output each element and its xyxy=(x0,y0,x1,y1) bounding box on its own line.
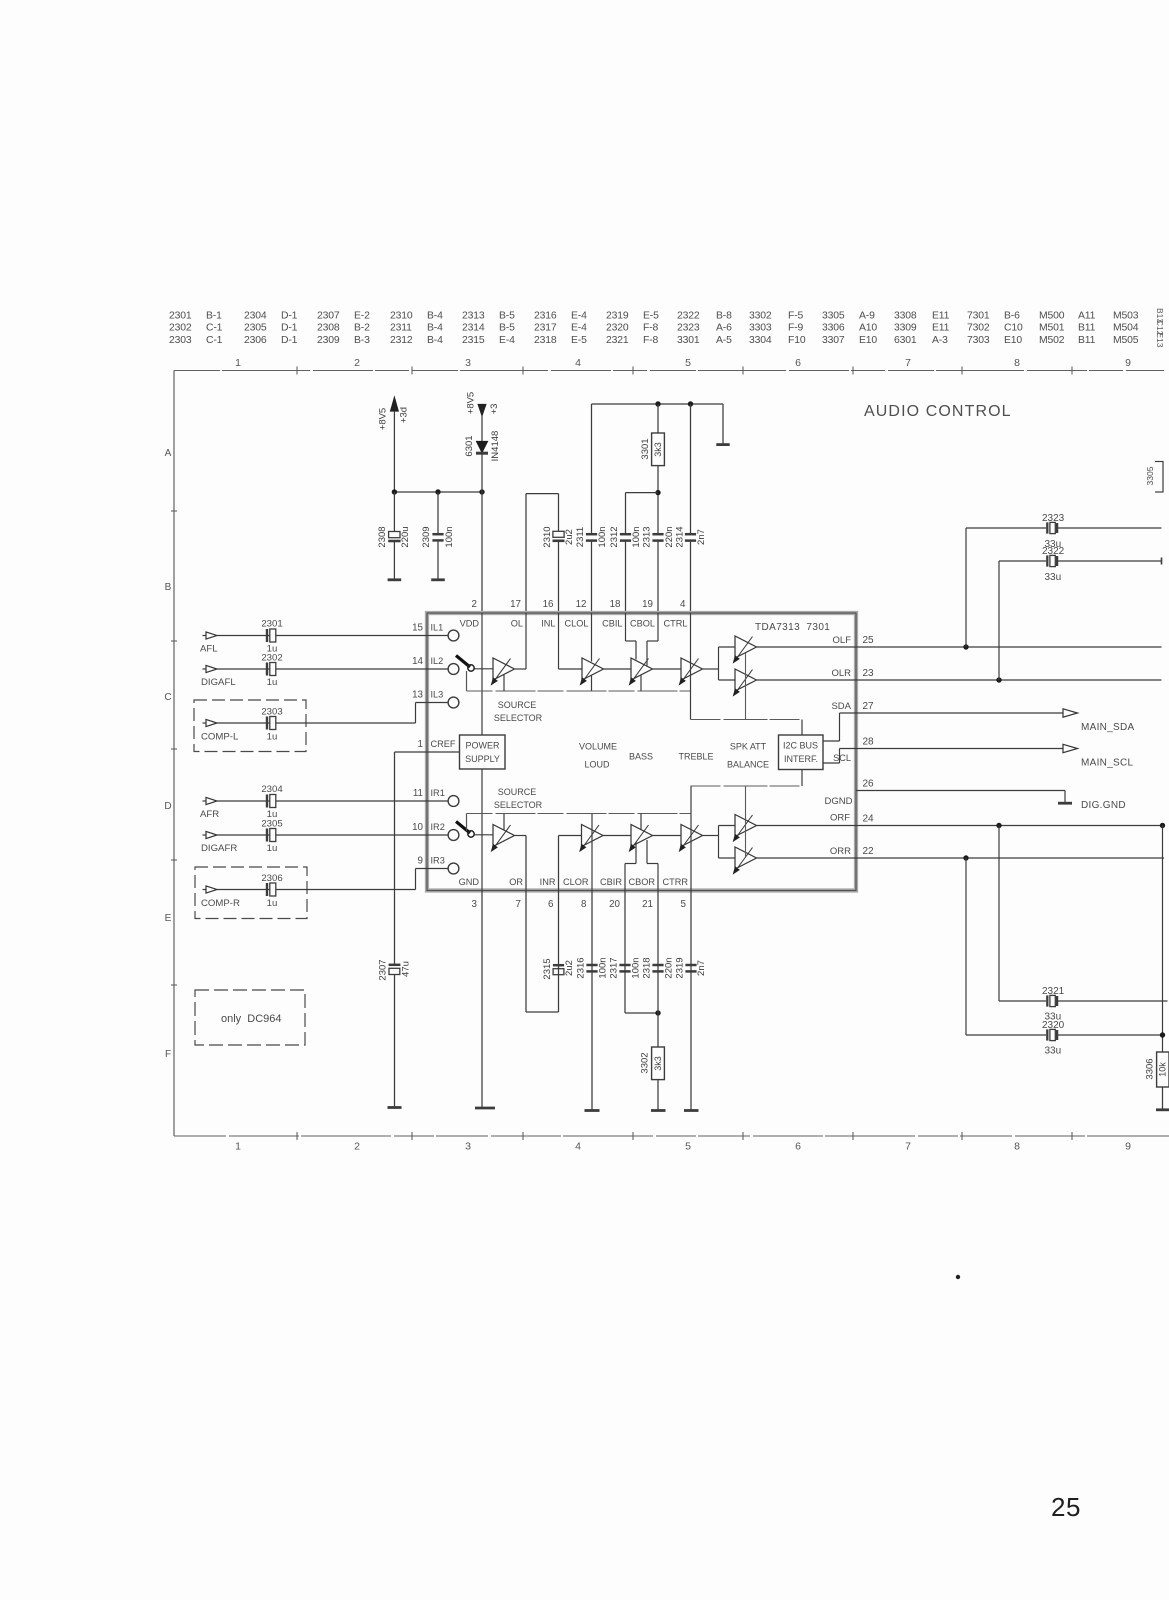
svg-text:INR: INR xyxy=(540,877,556,887)
svg-text:1: 1 xyxy=(235,357,241,369)
svg-text:D: D xyxy=(164,801,171,812)
svg-text:100n: 100n xyxy=(631,957,642,978)
svg-text:10: 10 xyxy=(412,822,423,833)
svg-text:3303: 3303 xyxy=(749,323,772,334)
svg-text:2314: 2314 xyxy=(675,526,686,547)
svg-text:SOURCE: SOURCE xyxy=(498,700,537,710)
svg-text:2304: 2304 xyxy=(244,311,267,322)
svg-text:2315: 2315 xyxy=(542,958,553,979)
svg-text:10k: 10k xyxy=(1158,1062,1168,1077)
svg-text:+3: +3 xyxy=(489,404,500,415)
svg-text:OL: OL xyxy=(511,619,523,629)
svg-text:7: 7 xyxy=(516,899,521,910)
svg-text:100n: 100n xyxy=(598,957,609,978)
svg-text:F-5: F-5 xyxy=(788,311,804,322)
svg-text:OLR: OLR xyxy=(831,668,851,679)
svg-text:2307: 2307 xyxy=(378,959,389,980)
svg-text:12: 12 xyxy=(576,599,587,610)
svg-text:1u: 1u xyxy=(267,732,278,743)
svg-text:SDA: SDA xyxy=(831,701,851,712)
svg-text:2318: 2318 xyxy=(642,957,653,978)
svg-text:COMP-R: COMP-R xyxy=(201,898,240,909)
svg-text:+8V5: +8V5 xyxy=(466,392,477,414)
svg-text:E-4: E-4 xyxy=(571,311,587,322)
svg-text:IR1: IR1 xyxy=(431,788,445,798)
svg-text:B-2: B-2 xyxy=(354,323,370,334)
svg-text:E11: E11 xyxy=(932,323,950,334)
svg-text:5: 5 xyxy=(685,357,691,369)
svg-text:2311: 2311 xyxy=(575,527,586,547)
svg-text:2n7: 2n7 xyxy=(696,529,707,545)
svg-text:1: 1 xyxy=(418,739,423,750)
svg-text:C: C xyxy=(164,692,171,703)
svg-text:IN4148: IN4148 xyxy=(490,431,501,462)
svg-text:3k3: 3k3 xyxy=(653,1056,663,1071)
svg-text:B-6: B-6 xyxy=(1004,311,1020,322)
svg-text:24: 24 xyxy=(863,814,875,825)
svg-text:2319: 2319 xyxy=(606,311,629,322)
svg-text:LOUD: LOUD xyxy=(584,760,610,770)
svg-text:2309: 2309 xyxy=(421,526,432,547)
svg-text:21: 21 xyxy=(642,899,653,910)
svg-text:TREBLE: TREBLE xyxy=(678,752,713,762)
svg-text:only DC964: only DC964 xyxy=(221,1013,282,1025)
svg-text:B11: B11 xyxy=(1078,323,1096,334)
svg-text:B: B xyxy=(165,582,172,593)
svg-text:8: 8 xyxy=(1014,357,1020,369)
svg-text:M500: M500 xyxy=(1039,311,1065,322)
svg-text:4: 4 xyxy=(680,599,686,610)
svg-text:2319: 2319 xyxy=(675,957,686,978)
svg-text:2308: 2308 xyxy=(317,323,340,334)
svg-text:IL3: IL3 xyxy=(431,690,444,700)
svg-text:VDD: VDD xyxy=(460,619,480,629)
svg-text:CBOL: CBOL xyxy=(630,619,655,629)
svg-text:2306: 2306 xyxy=(244,335,267,346)
svg-text:7302: 7302 xyxy=(967,323,990,334)
svg-text:B-4: B-4 xyxy=(427,335,443,346)
svg-text:E10: E10 xyxy=(859,335,877,346)
svg-text:1u: 1u xyxy=(267,898,278,909)
svg-text:F-9: F-9 xyxy=(788,323,804,334)
svg-text:3302: 3302 xyxy=(749,311,772,322)
svg-text:4: 4 xyxy=(575,1141,581,1153)
svg-text:3: 3 xyxy=(465,357,471,369)
svg-text:1u: 1u xyxy=(267,677,278,688)
svg-text:2309: 2309 xyxy=(317,335,340,346)
svg-text:2306: 2306 xyxy=(261,873,282,884)
svg-text:E: E xyxy=(165,913,172,924)
svg-text:2316: 2316 xyxy=(576,957,587,978)
svg-text:CREF: CREF xyxy=(431,739,456,749)
svg-text:ORR: ORR xyxy=(830,846,851,857)
svg-text:2304: 2304 xyxy=(261,784,283,795)
svg-text:9: 9 xyxy=(1125,357,1131,369)
svg-text:CTRL: CTRL xyxy=(664,619,688,629)
svg-text:INTERF.: INTERF. xyxy=(784,754,818,764)
svg-text:2305: 2305 xyxy=(261,819,282,830)
svg-text:MAIN_SDA: MAIN_SDA xyxy=(1081,722,1135,733)
svg-text:F-8: F-8 xyxy=(643,323,659,334)
svg-text:E-4: E-4 xyxy=(499,335,515,346)
svg-text:TDA7313 7301: TDA7313 7301 xyxy=(755,622,830,633)
svg-text:7: 7 xyxy=(905,1141,911,1153)
svg-text:C10: C10 xyxy=(1004,323,1023,334)
svg-text:2323: 2323 xyxy=(677,323,700,334)
svg-text:SELECTOR: SELECTOR xyxy=(494,800,543,810)
svg-text:2317: 2317 xyxy=(534,323,557,334)
svg-text:IR3: IR3 xyxy=(431,856,445,866)
svg-text:B11: B11 xyxy=(1078,335,1096,346)
svg-text:SCL: SCL xyxy=(833,753,851,763)
svg-text:OLF: OLF xyxy=(833,635,852,646)
svg-text:M502: M502 xyxy=(1039,335,1065,346)
svg-text:A-3: A-3 xyxy=(932,335,948,346)
svg-text:F-8: F-8 xyxy=(643,335,659,346)
svg-text:2u2: 2u2 xyxy=(564,960,575,976)
svg-text:26: 26 xyxy=(863,779,875,790)
svg-text:M501: M501 xyxy=(1039,323,1065,334)
svg-text:SELECTOR: SELECTOR xyxy=(494,713,543,723)
svg-text:16: 16 xyxy=(543,599,554,610)
svg-text:7301: 7301 xyxy=(967,311,990,322)
svg-text:M504: M504 xyxy=(1113,323,1139,334)
svg-text:8: 8 xyxy=(581,899,587,910)
svg-text:22: 22 xyxy=(863,846,875,857)
svg-text:220n: 220n xyxy=(664,526,675,547)
svg-text:2320: 2320 xyxy=(1042,1020,1065,1031)
svg-text:E-4: E-4 xyxy=(571,323,587,334)
svg-text:6301: 6301 xyxy=(464,435,475,456)
svg-text:11: 11 xyxy=(413,788,423,799)
svg-text:8: 8 xyxy=(1014,1141,1020,1153)
svg-text:100n: 100n xyxy=(597,526,608,547)
svg-text:B-5: B-5 xyxy=(499,311,515,322)
svg-text:I2C BUS: I2C BUS xyxy=(783,741,818,751)
svg-text:15: 15 xyxy=(412,623,423,634)
svg-text:F: F xyxy=(165,1049,171,1060)
svg-text:D-1: D-1 xyxy=(281,311,298,322)
svg-text:5: 5 xyxy=(681,899,687,910)
svg-text:3309: 3309 xyxy=(894,323,917,334)
svg-text:B-4: B-4 xyxy=(427,323,443,334)
svg-text:2313: 2313 xyxy=(462,311,485,322)
svg-text:A-9: A-9 xyxy=(859,311,875,322)
svg-text:28: 28 xyxy=(863,737,875,748)
svg-text:2310: 2310 xyxy=(390,311,413,322)
svg-text:2301: 2301 xyxy=(169,311,192,322)
svg-text:100n: 100n xyxy=(631,526,642,547)
svg-text:7: 7 xyxy=(905,357,911,369)
svg-text:3304: 3304 xyxy=(749,335,772,346)
svg-text:2321: 2321 xyxy=(606,335,629,346)
svg-text:COMP-L: COMP-L xyxy=(201,732,239,743)
svg-text:2310: 2310 xyxy=(542,526,553,547)
svg-text:E11: E11 xyxy=(932,311,950,322)
svg-text:33u: 33u xyxy=(1045,1046,1062,1057)
svg-text:CBIR: CBIR xyxy=(600,877,622,887)
svg-text:2316: 2316 xyxy=(534,311,557,322)
svg-text:2305: 2305 xyxy=(244,323,267,334)
svg-text:BALANCE: BALANCE xyxy=(727,760,769,770)
svg-text:2: 2 xyxy=(354,357,360,369)
svg-text:2315: 2315 xyxy=(462,335,485,346)
svg-text:2308: 2308 xyxy=(377,526,388,547)
svg-text:CLOR: CLOR xyxy=(563,877,589,887)
svg-text:A10: A10 xyxy=(859,323,877,334)
svg-text:25: 25 xyxy=(863,635,875,646)
svg-text:E-2: E-2 xyxy=(354,311,370,322)
svg-text:2303: 2303 xyxy=(169,335,192,346)
svg-text:2u2: 2u2 xyxy=(564,529,575,545)
svg-text:25: 25 xyxy=(1051,1492,1081,1522)
svg-text:14: 14 xyxy=(412,656,423,667)
svg-text:A-6: A-6 xyxy=(716,323,732,334)
svg-text:47u: 47u xyxy=(401,961,412,977)
svg-text:IR2: IR2 xyxy=(431,822,445,832)
svg-text:3307: 3307 xyxy=(822,335,845,346)
svg-text:IL2: IL2 xyxy=(431,656,444,666)
svg-text:+3d: +3d xyxy=(399,407,410,423)
svg-text:3302: 3302 xyxy=(640,1052,651,1073)
svg-text:3305: 3305 xyxy=(1145,466,1155,485)
svg-text:2312: 2312 xyxy=(390,335,413,346)
svg-text:B-5: B-5 xyxy=(499,323,515,334)
svg-text:D-1: D-1 xyxy=(281,335,298,346)
svg-text:CBIL: CBIL xyxy=(602,619,622,629)
svg-text:VOLUME: VOLUME xyxy=(579,742,617,752)
svg-text:220u: 220u xyxy=(400,526,411,547)
svg-text:33u: 33u xyxy=(1045,572,1062,583)
svg-text:A: A xyxy=(165,448,172,459)
svg-text:2: 2 xyxy=(354,1141,360,1153)
svg-text:19: 19 xyxy=(642,599,653,610)
svg-text:E13: E13 xyxy=(1155,332,1165,347)
svg-text:AUDIO CONTROL: AUDIO CONTROL xyxy=(864,403,1012,420)
svg-text:9: 9 xyxy=(1125,1141,1131,1153)
svg-text:7303: 7303 xyxy=(967,335,990,346)
svg-text:3k3: 3k3 xyxy=(653,442,663,457)
svg-text:GND: GND xyxy=(459,877,480,887)
svg-text:SUPPLY: SUPPLY xyxy=(465,754,500,764)
svg-text:2313: 2313 xyxy=(642,526,653,547)
svg-text:23: 23 xyxy=(863,668,875,679)
svg-text:6: 6 xyxy=(795,1141,801,1153)
svg-text:ORF: ORF xyxy=(830,813,850,824)
svg-text:+8V5: +8V5 xyxy=(378,408,389,430)
svg-text:3306: 3306 xyxy=(1145,1058,1156,1079)
svg-text:D-1: D-1 xyxy=(281,323,298,334)
svg-text:B-3: B-3 xyxy=(354,335,370,346)
svg-text:220n: 220n xyxy=(664,957,675,978)
svg-text:3: 3 xyxy=(472,899,478,910)
svg-text:9: 9 xyxy=(418,856,423,867)
svg-text:M503: M503 xyxy=(1113,311,1139,322)
svg-text:3308: 3308 xyxy=(894,311,917,322)
svg-text:DIG.GND: DIG.GND xyxy=(1081,800,1126,811)
svg-text:27: 27 xyxy=(863,701,875,712)
svg-text:13: 13 xyxy=(412,690,423,701)
svg-text:CLOL: CLOL xyxy=(564,619,588,629)
svg-text:MAIN_SCL: MAIN_SCL xyxy=(1081,758,1134,769)
svg-text:2311: 2311 xyxy=(390,323,412,334)
svg-text:F10: F10 xyxy=(788,335,806,346)
svg-text:BASS: BASS xyxy=(629,752,653,762)
svg-text:2323: 2323 xyxy=(1042,513,1065,524)
svg-text:6301: 6301 xyxy=(894,335,917,346)
svg-text:AFR: AFR xyxy=(200,809,219,820)
svg-text:SPK ATT: SPK ATT xyxy=(730,742,767,752)
svg-text:20: 20 xyxy=(609,899,620,910)
svg-text:POWER: POWER xyxy=(465,741,500,751)
svg-text:2302: 2302 xyxy=(169,323,192,334)
svg-text:DIGAFL: DIGAFL xyxy=(201,677,236,688)
svg-text:IL1: IL1 xyxy=(431,623,444,633)
svg-text:OR: OR xyxy=(509,877,523,887)
svg-text:DGND: DGND xyxy=(825,796,853,807)
svg-text:2n7: 2n7 xyxy=(696,960,707,976)
svg-text:100n: 100n xyxy=(444,526,455,547)
svg-text:4: 4 xyxy=(575,357,581,369)
svg-text:17: 17 xyxy=(510,599,521,610)
svg-text:3306: 3306 xyxy=(822,323,845,334)
svg-text:C-1: C-1 xyxy=(206,335,223,346)
svg-text:2321: 2321 xyxy=(1042,986,1065,997)
svg-text:CBOR: CBOR xyxy=(628,877,655,887)
svg-text:2314: 2314 xyxy=(462,323,485,334)
svg-text:3301: 3301 xyxy=(677,335,700,346)
svg-text:2312: 2312 xyxy=(609,526,620,547)
svg-text:3305: 3305 xyxy=(822,311,845,322)
svg-text:DIGAFR: DIGAFR xyxy=(201,843,237,854)
svg-text:18: 18 xyxy=(610,599,621,610)
svg-text:2318: 2318 xyxy=(534,335,557,346)
svg-text:SOURCE: SOURCE xyxy=(498,787,537,797)
svg-text:2307: 2307 xyxy=(317,311,340,322)
svg-text:3301: 3301 xyxy=(640,438,651,459)
svg-text:2322: 2322 xyxy=(1042,546,1065,557)
svg-text:A11: A11 xyxy=(1078,311,1096,322)
svg-text:INL: INL xyxy=(541,619,555,629)
svg-text:2302: 2302 xyxy=(261,653,282,664)
svg-text:1u: 1u xyxy=(267,843,278,854)
svg-text:C-1: C-1 xyxy=(206,323,223,334)
svg-text:2322: 2322 xyxy=(677,311,700,322)
svg-text:5: 5 xyxy=(685,1141,691,1153)
svg-text:3: 3 xyxy=(465,1141,471,1153)
svg-text:M505: M505 xyxy=(1113,335,1139,346)
svg-text:B-8: B-8 xyxy=(716,311,732,322)
svg-text:2303: 2303 xyxy=(261,707,282,718)
svg-text:E-5: E-5 xyxy=(571,335,587,346)
svg-text:B-4: B-4 xyxy=(427,311,443,322)
svg-text:E-5: E-5 xyxy=(643,311,659,322)
svg-text:2320: 2320 xyxy=(606,323,629,334)
svg-text:2317: 2317 xyxy=(609,957,620,978)
svg-text:1: 1 xyxy=(235,1141,241,1153)
svg-text:E10: E10 xyxy=(1004,335,1022,346)
svg-text:B-1: B-1 xyxy=(206,311,222,322)
svg-text:6: 6 xyxy=(795,357,801,369)
svg-text:2: 2 xyxy=(472,599,477,610)
svg-text:CTRR: CTRR xyxy=(662,877,688,887)
svg-text:6: 6 xyxy=(548,899,554,910)
svg-text:2301: 2301 xyxy=(261,619,282,630)
svg-text:AFL: AFL xyxy=(200,644,218,655)
svg-text:A-5: A-5 xyxy=(716,335,732,346)
